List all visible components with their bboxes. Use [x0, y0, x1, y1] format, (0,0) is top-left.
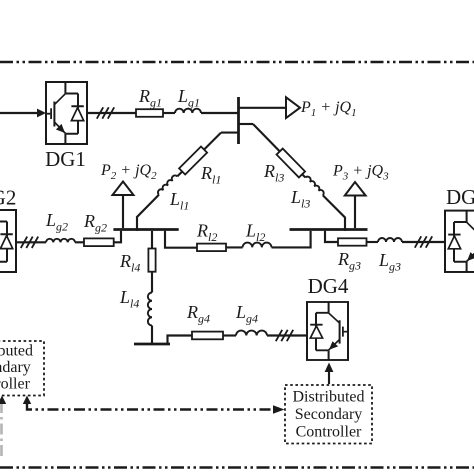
inductor Lg3	[378, 238, 402, 242]
svg-text:P2 + jQ2: P2 + jQ2	[100, 162, 157, 182]
resistor Rg1	[136, 109, 163, 117]
svg-text:Rl1: Rl1	[200, 163, 221, 187]
load P2 stem	[122, 195, 124, 228]
wire Rl4 to Ll4	[151, 272, 153, 293]
svg-text:Secondary: Secondary	[0, 359, 31, 376]
wire Rg4 to Lg4	[223, 334, 236, 336]
bus 3	[290, 228, 368, 231]
bus 2	[113, 228, 178, 231]
converter U4 (DG4)	[307, 302, 348, 360]
load arrow P1	[286, 97, 300, 118]
inductor Ll4	[148, 293, 152, 326]
svg-text:Ll2: Ll2	[245, 221, 265, 245]
svg-text:Controller: Controller	[0, 376, 31, 393]
svg-text:Distributed: Distributed	[0, 343, 33, 360]
svg-text:Rl4: Rl4	[119, 251, 140, 275]
converter U1 (DG1)	[46, 82, 87, 144]
wire Rg2 to Lg2	[75, 241, 84, 243]
svg-text:DG3: DG3	[446, 185, 474, 209]
inductor Ll2	[243, 243, 272, 248]
svg-text:Lg3: Lg3	[378, 250, 401, 274]
wire Lg2 to DG2	[16, 241, 46, 243]
bus 1	[237, 97, 240, 144]
wire Rg2 to bus2	[114, 231, 121, 242]
converter U2 (DG2)	[0, 210, 16, 272]
svg-text:P1 + jQ1: P1 + jQ1	[300, 99, 357, 119]
load P3 stem	[354, 196, 356, 229]
resistor Rg2	[84, 238, 114, 246]
wire Ll1 lower diagonal	[137, 195, 159, 231]
inductor Lg2	[46, 239, 75, 242]
wire bus3 to Rg3	[325, 231, 338, 242]
controller box DSC2	[0, 341, 44, 396]
wire bus4 to Rg4	[168, 336, 193, 345]
wire Rl1 to Ll1	[177, 172, 182, 177]
wire line13 upper diagonal	[253, 124, 280, 151]
wire Ll3 lower diagonal	[323, 195, 345, 231]
svg-text:P3 + jQ3: P3 + jQ3	[332, 163, 389, 183]
wire Lg4 to DG4	[267, 334, 307, 336]
inductor Ll3	[305, 177, 323, 196]
svg-text:Rg2: Rg2	[83, 211, 107, 235]
wire Rg1 to Lg1	[163, 112, 175, 114]
svg-text:Rg4: Rg4	[186, 302, 210, 326]
resistor Rl1	[179, 146, 207, 174]
resistor Rl2	[197, 244, 226, 252]
svg-text:DG4: DG4	[308, 274, 349, 298]
inductor Lg4	[236, 331, 267, 336]
resistor Rg4	[192, 332, 223, 340]
svg-text:Rl2: Rl2	[196, 221, 217, 245]
wire Rl2 to bus2	[165, 231, 197, 248]
resistor Rl4	[148, 249, 155, 272]
wire DG1 output	[87, 112, 136, 114]
svg-text:Lg2: Lg2	[45, 210, 68, 234]
load arrow P3	[345, 182, 366, 196]
communication line DSC2 to DSC4	[27, 404, 272, 410]
svg-text:Rg3: Rg3	[337, 249, 361, 273]
three-phase slashes DG3	[415, 236, 432, 247]
svg-text:Distributed: Distributed	[293, 389, 365, 406]
svg-text:Rl3: Rl3	[263, 161, 284, 185]
wire Lg3 to DG3	[402, 241, 445, 243]
arrowhead gray comm into DSC2	[0, 396, 6, 405]
resistor Rg3	[338, 238, 367, 245]
three-phase slashes DG4	[276, 330, 293, 341]
three-phase slashes DG1	[97, 107, 114, 118]
svg-text:Lg4: Lg4	[235, 302, 258, 326]
three-phase slashes DG2	[21, 237, 38, 248]
svg-text:Ll4: Ll4	[119, 287, 139, 311]
converter U3 (DG3)	[445, 211, 474, 272]
arrowhead DSC4 to DG4	[325, 363, 334, 373]
svg-text:DG1: DG1	[45, 147, 86, 171]
controller box DSC4	[285, 385, 372, 444]
svg-text:Rg1: Rg1	[138, 86, 162, 110]
svg-text:DG2: DG2	[0, 186, 16, 210]
inductor Lg1	[175, 109, 201, 113]
svg-text:Ll3: Ll3	[290, 187, 310, 211]
svg-text:Controller: Controller	[296, 424, 362, 441]
wire Rg3 to Lg3	[367, 241, 379, 243]
svg-text:Ll1: Ll1	[169, 189, 189, 213]
boundary dash-dot-dot line top	[0, 61, 474, 64]
wire Ll2 to bus3	[272, 231, 311, 248]
svg-text:Lg1: Lg1	[177, 86, 200, 110]
inductor Ll1	[158, 175, 177, 194]
boundary dash-dot-dot line bottom	[0, 466, 474, 469]
arrowhead comm into DSC4	[273, 405, 285, 414]
wire DG1 input	[0, 112, 38, 114]
bus 4	[134, 343, 170, 346]
load arrow P2	[113, 182, 134, 196]
arrowhead comm into DSC2	[23, 396, 31, 405]
wire Ll4 to bus4	[151, 326, 153, 345]
wire line11 upper diagonal	[204, 133, 221, 150]
arrow DSC4 to DG4	[328, 372, 330, 385]
arrowhead DG1 input	[37, 109, 46, 118]
wire Rl3 to Ll3	[302, 174, 306, 178]
wire Lg1 to bus1	[201, 112, 239, 114]
wire bus1 to line13	[239, 123, 254, 125]
communication line gray vertical	[0, 402, 3, 460]
wire Rl2 to Ll2	[226, 246, 243, 248]
wire bus1 to line11	[221, 132, 239, 134]
wire bus1 to load P1	[239, 107, 287, 109]
wire Rl4 to bus2	[151, 231, 153, 249]
resistor Rl3	[277, 149, 306, 178]
svg-text:Secondary: Secondary	[295, 406, 363, 423]
